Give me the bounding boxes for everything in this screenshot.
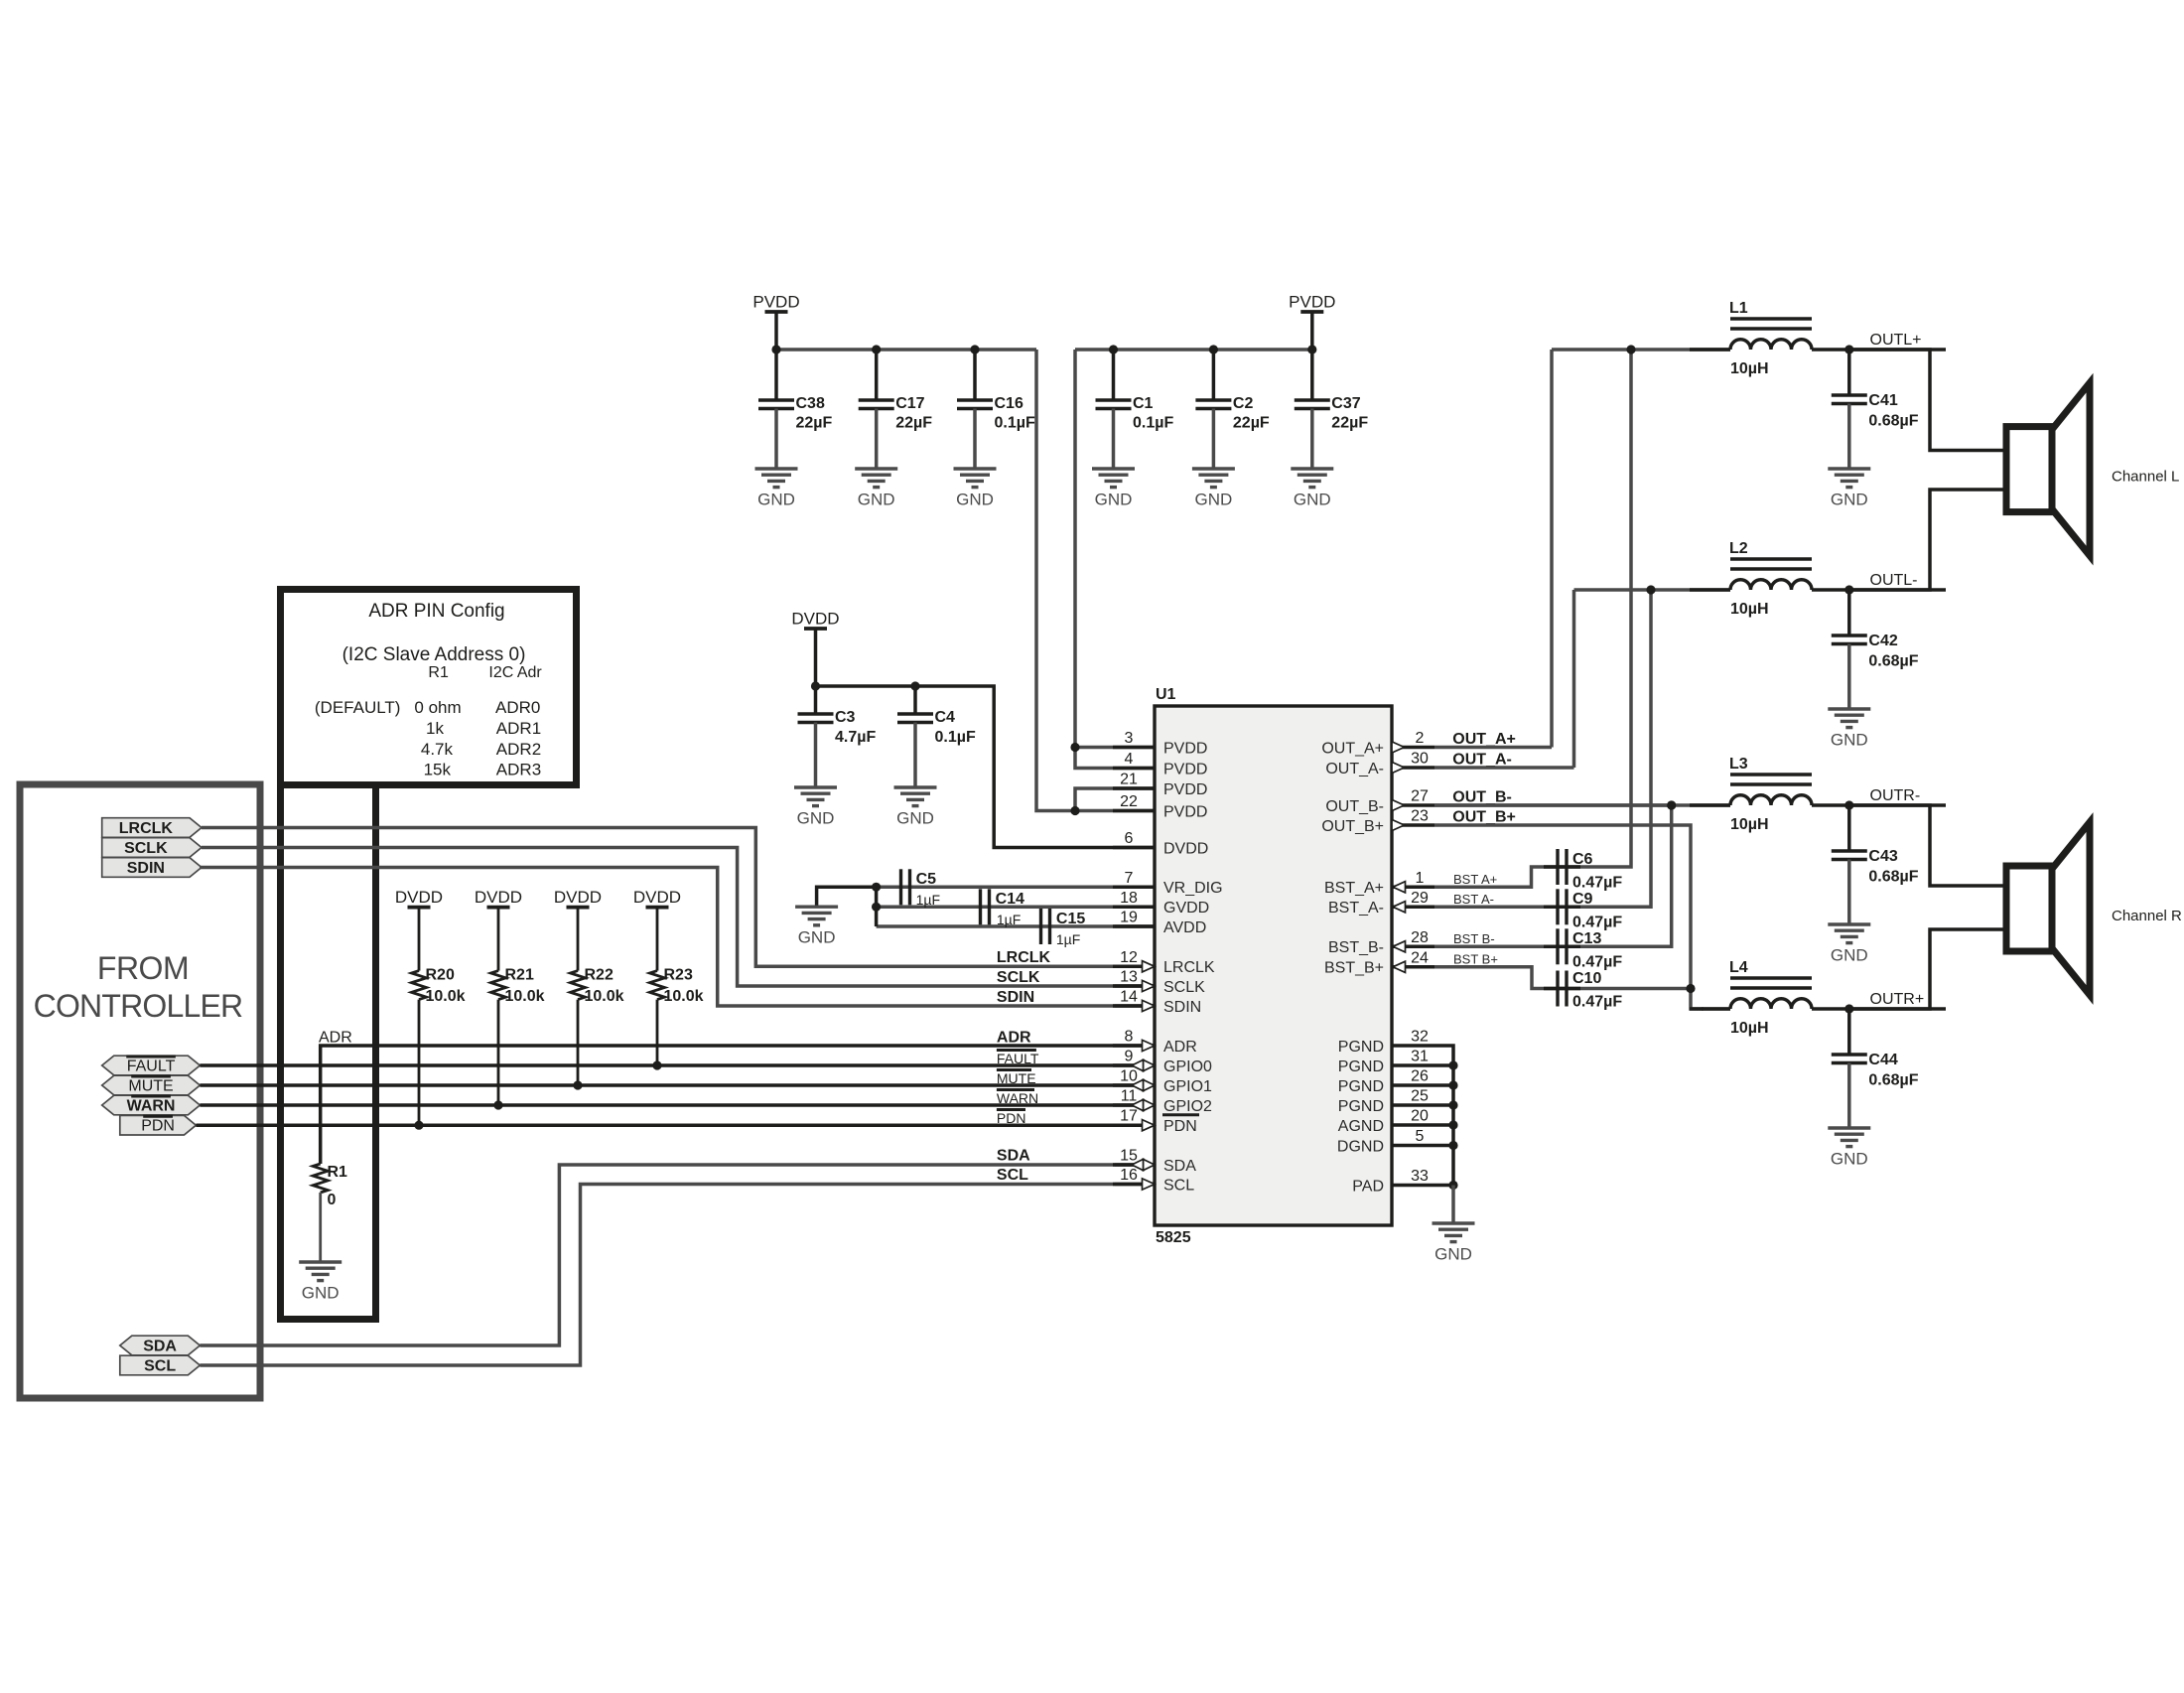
svg-text:0.47µF: 0.47µF (1572, 915, 1622, 931)
pin 32 PGND (1392, 1044, 1434, 1048)
svg-text:DVDD: DVDD (791, 610, 839, 629)
wire VR_DIG row (877, 886, 1115, 890)
svg-text:(I2C Slave Address 0): (I2C Slave Address 0) (342, 644, 526, 665)
pin 28 BST_B- (1392, 945, 1434, 949)
svg-text:OUT_B+: OUT_B+ (1321, 818, 1384, 835)
svg-text:PVDD: PVDD (1163, 740, 1207, 757)
ground below PAD (1433, 1221, 1475, 1224)
pin 27 OUT_B- (1392, 803, 1434, 807)
IC U1 body (1155, 706, 1392, 1225)
capacitor C5 (899, 869, 902, 905)
wire DVDD rail to pin 6 (816, 686, 1156, 848)
pin 10 GPIO1 (1113, 1083, 1155, 1087)
wire PVDD left to rail (774, 312, 778, 350)
pin 18 GVDD (1113, 906, 1155, 910)
svg-text:BST_B-: BST_B- (1328, 939, 1384, 956)
svg-text:C17: C17 (895, 395, 924, 412)
svg-text:2: 2 (1416, 730, 1425, 747)
node pin22 line (1070, 806, 1079, 815)
svg-text:C44: C44 (1868, 1052, 1897, 1068)
svg-text:SCL: SCL (997, 1167, 1028, 1184)
flag SDA (120, 1336, 201, 1355)
pin 20 AGND (1392, 1123, 1434, 1127)
node rail C38 (771, 345, 780, 353)
flag LRCLK (102, 818, 202, 838)
node rail C17 (872, 345, 881, 353)
svg-text:22µF: 22µF (1233, 415, 1270, 432)
ADR config box (281, 784, 376, 1320)
svg-text:PDN: PDN (1163, 1118, 1197, 1135)
node rail C2 (1209, 345, 1218, 353)
pin 11 GPIO2 (1113, 1103, 1155, 1107)
svg-text:PAD: PAD (1352, 1178, 1384, 1195)
wire OUTR- to speaker (1849, 805, 2006, 886)
svg-text:PDN: PDN (997, 1110, 1026, 1126)
svg-text:C16: C16 (995, 395, 1024, 412)
svg-text:GND: GND (896, 809, 934, 828)
svg-text:SDA: SDA (143, 1339, 177, 1355)
svg-text:C9: C9 (1572, 891, 1593, 908)
node OUTR+ (1844, 1004, 1853, 1013)
ground below C38 (755, 467, 798, 470)
wire to ground arm (817, 887, 877, 907)
wire FAULT net (200, 1063, 1155, 1067)
pin 33 PAD (1392, 1184, 1434, 1188)
node L3 bst join (1667, 800, 1676, 809)
svg-text:13: 13 (1120, 969, 1138, 986)
svg-text:U1: U1 (1156, 686, 1176, 703)
svg-text:R1: R1 (428, 664, 449, 681)
wire L2 row (1574, 588, 1731, 592)
svg-text:ADR: ADR (319, 1030, 352, 1047)
capacitor C10 0.47uF (1544, 987, 1580, 991)
wire PGND branch (1434, 1103, 1453, 1107)
resistor R22 10.0k (577, 908, 580, 971)
svg-text:FAULT: FAULT (127, 1058, 176, 1075)
svg-text:18: 18 (1120, 890, 1138, 907)
svg-text:DVDD: DVDD (554, 888, 602, 907)
svg-text:MUTE: MUTE (997, 1070, 1036, 1086)
ground for C5 network (795, 906, 838, 909)
wire PGND branch (1434, 1144, 1453, 1148)
wire PVDD rail right group (1075, 348, 1312, 352)
svg-text:19: 19 (1120, 910, 1138, 926)
pin 15 SDA (1113, 1163, 1155, 1167)
svg-text:L2: L2 (1729, 540, 1748, 557)
pin 17 PDN (1113, 1123, 1155, 1127)
pin 6 DVDD (1113, 846, 1155, 850)
svg-text:GPIO2: GPIO2 (1163, 1098, 1212, 1115)
capacitor C42 0.68uF (1847, 590, 1851, 635)
node C4 (910, 681, 919, 690)
svg-text:SDIN: SDIN (997, 989, 1034, 1006)
wire PGND branch (1434, 1123, 1453, 1127)
svg-text:C42: C42 (1868, 633, 1897, 649)
svg-text:C1: C1 (1133, 395, 1154, 412)
flag SCL (120, 1355, 201, 1375)
svg-text:PVDD: PVDD (1163, 761, 1207, 777)
wire pin 3 branch (1075, 746, 1155, 750)
svg-text:OUT_A+: OUT_A+ (1452, 731, 1516, 748)
pin 23 OUT_B+ (1392, 823, 1434, 827)
svg-text:29: 29 (1411, 890, 1429, 907)
svg-text:C13: C13 (1572, 930, 1601, 947)
svg-text:L3: L3 (1729, 756, 1748, 773)
svg-text:11: 11 (1121, 1088, 1138, 1105)
wire PVDD rail left group (776, 348, 1036, 352)
svg-text:L1: L1 (1729, 300, 1748, 317)
inductor L1 10uH (1730, 317, 1812, 321)
svg-text:5: 5 (1416, 1128, 1425, 1145)
svg-text:0.1µF: 0.1µF (1133, 415, 1173, 432)
svg-text:C3: C3 (835, 709, 856, 726)
ground below C3 (794, 785, 837, 788)
svg-text:0 ohm: 0 ohm (414, 698, 461, 717)
svg-text:8: 8 (1125, 1029, 1134, 1046)
svg-text:GND: GND (302, 1284, 340, 1303)
svg-text:PDN: PDN (141, 1118, 175, 1135)
node pin3 branch (1070, 743, 1079, 752)
svg-text:C4: C4 (935, 709, 956, 726)
svg-text:0.47µF: 0.47µF (1572, 875, 1622, 892)
svg-text:10.0k: 10.0k (426, 988, 466, 1005)
node PGND (1448, 1141, 1457, 1150)
wire ADR net (321, 1046, 1155, 1164)
pin 1 BST_A+ (1392, 886, 1434, 890)
pin 9 GPIO0 (1113, 1063, 1155, 1067)
wire PAD to ground (1451, 1186, 1455, 1224)
wire OUTL- to speaker (1849, 490, 2006, 590)
svg-text:12: 12 (1120, 949, 1138, 966)
node R22 junction (573, 1080, 582, 1089)
svg-text:I2C Adr: I2C Adr (488, 664, 542, 681)
wire BST_B- to C13 (1434, 805, 1672, 946)
svg-text:PGND: PGND (1338, 1039, 1384, 1056)
node C10 junction (1686, 984, 1695, 993)
pin 25 PGND (1392, 1103, 1434, 1107)
svg-text:21: 21 (1120, 772, 1138, 788)
ground below C37 (1291, 467, 1333, 470)
flag MUTE (102, 1075, 201, 1095)
svg-text:CONTROLLER: CONTROLLER (34, 988, 243, 1024)
svg-text:30: 30 (1411, 751, 1429, 768)
pin 24 BST_B+ (1392, 965, 1434, 969)
flag SCLK (102, 838, 202, 858)
node C13 junction (1667, 800, 1676, 809)
svg-text:SCL: SCL (144, 1358, 176, 1375)
svg-text:C14: C14 (996, 891, 1024, 908)
svg-text:33: 33 (1411, 1168, 1429, 1185)
wire pin 21 branch (1075, 788, 1155, 811)
svg-text:1µF: 1µF (1056, 931, 1080, 947)
ground below C2 (1192, 467, 1235, 470)
wire SDA net (200, 1165, 1115, 1345)
node R23 junction (652, 1060, 661, 1069)
ground below C41 (1828, 467, 1870, 470)
svg-text:GND: GND (956, 491, 994, 509)
svg-text:17: 17 (1120, 1108, 1138, 1125)
speaker Channel L (2006, 427, 2054, 512)
svg-text:ADR2: ADR2 (496, 740, 541, 759)
svg-text:0.68µF: 0.68µF (1868, 653, 1918, 670)
capacitor C6 0.47uF (1544, 865, 1580, 869)
svg-text:0.1µF: 0.1µF (935, 729, 976, 746)
pin 7 VR_DIG (1113, 886, 1155, 890)
svg-text:16: 16 (1120, 1167, 1138, 1184)
svg-text:0.47µF: 0.47µF (1572, 994, 1622, 1011)
svg-text:BST A-: BST A- (1453, 892, 1494, 907)
svg-text:15: 15 (1120, 1148, 1138, 1165)
svg-text:10µH: 10µH (1730, 601, 1769, 618)
svg-text:DVDD: DVDD (633, 888, 681, 907)
svg-text:22µF: 22µF (895, 415, 932, 432)
wire OUTL+ to speaker (1849, 350, 2006, 451)
wire PGND branch (1434, 1083, 1453, 1087)
pin 14 SDIN (1113, 1004, 1155, 1008)
svg-text:OUTL-: OUTL- (1870, 572, 1918, 589)
svg-text:PGND: PGND (1338, 1078, 1384, 1095)
pin 30 OUT_A- (1392, 766, 1434, 770)
svg-text:0.68µF: 0.68µF (1868, 1072, 1918, 1089)
svg-text:SDIN: SDIN (127, 860, 165, 877)
pin 4 PVDD (1113, 767, 1155, 771)
ground below C17 (855, 467, 897, 470)
svg-text:25: 25 (1411, 1088, 1429, 1105)
svg-text:31: 31 (1411, 1049, 1429, 1065)
ground below R1 (299, 1260, 341, 1263)
node PGND (1448, 1060, 1457, 1069)
ground below C42 (1828, 707, 1870, 710)
ground below C16 (954, 467, 997, 470)
pin 22 PVDD (1113, 809, 1155, 813)
svg-text:GND: GND (858, 491, 895, 509)
wire L4 row (1702, 1007, 1730, 1011)
svg-text:OUTR+: OUTR+ (1870, 991, 1925, 1008)
svg-text:PVDD: PVDD (1289, 293, 1335, 312)
inductor L2 10uH (1730, 557, 1812, 561)
pin 26 PGND (1392, 1083, 1434, 1087)
wire BST_A- to C9 (1434, 590, 1651, 907)
wire L3 row (1434, 803, 1730, 807)
svg-text:C10: C10 (1572, 970, 1601, 987)
inductor L3 10uH (1730, 773, 1812, 776)
ground below C44 (1828, 1126, 1870, 1129)
svg-text:C6: C6 (1572, 851, 1593, 868)
pin 16 SCL (1113, 1183, 1155, 1187)
svg-text:28: 28 (1411, 929, 1429, 946)
svg-text:SDIN: SDIN (1163, 999, 1201, 1016)
svg-text:PVDD: PVDD (1163, 803, 1207, 820)
svg-text:10.0k: 10.0k (585, 988, 624, 1005)
svg-text:10.0k: 10.0k (664, 988, 704, 1005)
svg-text:LRCLK: LRCLK (1163, 959, 1215, 976)
svg-text:BST B+: BST B+ (1453, 952, 1498, 967)
svg-text:0.47µF: 0.47µF (1572, 954, 1622, 971)
svg-text:GND: GND (1294, 491, 1331, 509)
svg-text:(DEFAULT): (DEFAULT) (315, 698, 401, 717)
wire OUT_B- feed (1434, 803, 1672, 807)
svg-text:FROM: FROM (97, 950, 189, 986)
svg-text:GND: GND (1095, 491, 1133, 509)
wire SCLK net (202, 848, 1115, 987)
node rail C16 (970, 345, 979, 353)
wire AVDD row (877, 924, 1115, 928)
inductor L4 10uH (1730, 976, 1812, 980)
svg-text:C2: C2 (1233, 395, 1254, 412)
pin 13 SCLK (1113, 984, 1155, 988)
pin 2 OUT_A+ (1392, 746, 1434, 750)
svg-text:OUT_B-: OUT_B- (1452, 789, 1512, 806)
svg-text:BST B-: BST B- (1453, 931, 1495, 946)
wire rail drop to pin 22 (1036, 350, 1155, 811)
svg-text:GND: GND (797, 809, 835, 828)
svg-text:SDA: SDA (1163, 1158, 1196, 1175)
svg-text:BST_A-: BST_A- (1328, 900, 1384, 917)
wire BST_B+ to C10 (1434, 967, 1691, 989)
wire MUTE net (200, 1083, 1155, 1087)
svg-text:6: 6 (1125, 830, 1134, 847)
wire SCL net (200, 1185, 1115, 1366)
node PGND (1448, 1100, 1457, 1109)
capacitor C2 (1212, 350, 1216, 400)
capacitor C41 0.68uF (1847, 350, 1851, 395)
capacitor C9 0.47uF (1544, 906, 1580, 910)
svg-text:4: 4 (1125, 751, 1134, 768)
capacitor C16 (973, 350, 977, 400)
svg-text:AVDD: AVDD (1163, 919, 1206, 936)
svg-text:BST A+: BST A+ (1453, 872, 1497, 887)
node rail C37 (1307, 345, 1316, 353)
wire PVDD right to rail (1310, 312, 1314, 350)
svg-text:GND: GND (1195, 491, 1233, 509)
flag PDN (120, 1115, 197, 1135)
wire PGND branch (1434, 1063, 1453, 1067)
svg-text:OUTR-: OUTR- (1870, 787, 1921, 804)
svg-text:SCLK: SCLK (997, 969, 1040, 986)
svg-text:10µH: 10µH (1730, 360, 1769, 377)
wire OUTR+ to speaker (1849, 929, 2006, 1009)
svg-text:ADR: ADR (997, 1029, 1031, 1046)
svg-text:PVDD: PVDD (1163, 781, 1207, 798)
svg-text:Channel R: Channel R (2112, 908, 2182, 924)
svg-text:C37: C37 (1331, 395, 1360, 412)
wire PDN net (196, 1123, 1155, 1127)
svg-text:22µF: 22µF (796, 415, 833, 432)
wire OUT_A- feed (1434, 766, 1574, 770)
svg-text:5825: 5825 (1156, 1229, 1191, 1246)
svg-text:15k: 15k (424, 761, 452, 779)
svg-text:ADR0: ADR0 (495, 698, 540, 717)
svg-text:0: 0 (328, 1192, 337, 1208)
wire OUT_B+ feed (1434, 825, 1704, 1009)
capacitor C15 (1039, 909, 1042, 944)
pin 5 DGND (1392, 1144, 1434, 1148)
pin 19 AVDD (1113, 924, 1155, 928)
resistor R23 10.0k (656, 908, 659, 971)
svg-text:VR_DIG: VR_DIG (1163, 880, 1223, 897)
pin 29 BST_A- (1392, 906, 1434, 910)
node OUTL- (1844, 585, 1853, 594)
svg-text:GND: GND (757, 491, 795, 509)
wire rail drop to pin 3 and 4 (1075, 350, 1155, 769)
svg-text:DVDD: DVDD (1163, 840, 1208, 857)
svg-text:GND: GND (1831, 1150, 1868, 1169)
svg-text:32: 32 (1411, 1029, 1429, 1046)
svg-text:GND: GND (798, 928, 836, 947)
svg-text:LRCLK: LRCLK (119, 820, 174, 837)
svg-text:22µF: 22µF (1331, 415, 1368, 432)
node L1 bst join (1626, 345, 1635, 353)
wire OUT_A+ feed (1434, 746, 1552, 750)
capacitor C43 0.68uF (1847, 805, 1851, 851)
svg-text:FAULT: FAULT (997, 1051, 1039, 1066)
resistor R21 10.0k (497, 908, 500, 971)
svg-text:DVDD: DVDD (475, 888, 522, 907)
node R21 junction (493, 1100, 502, 1109)
pin 8 ADR (1113, 1044, 1155, 1048)
svg-text:PGND: PGND (1338, 1058, 1384, 1075)
svg-text:3: 3 (1125, 730, 1134, 747)
svg-text:4.7k: 4.7k (421, 740, 454, 759)
flag WARN (102, 1095, 201, 1115)
wire BST_A+ to C6 (1434, 350, 1631, 887)
node R20 junction (414, 1121, 423, 1130)
svg-text:26: 26 (1411, 1068, 1429, 1085)
pin 3 PVDD (1113, 746, 1155, 750)
wire LRCLK net (202, 828, 1115, 967)
svg-text:OUT_A-: OUT_A- (1452, 752, 1512, 769)
capacitor C38 (774, 350, 778, 400)
capacitor C17 (875, 350, 879, 400)
svg-text:C41: C41 (1868, 392, 1897, 409)
svg-text:10: 10 (1120, 1068, 1138, 1085)
pin 31 PGND (1392, 1063, 1434, 1067)
svg-text:R21: R21 (505, 966, 534, 983)
svg-text:OUTL+: OUTL+ (1870, 332, 1922, 349)
wire SDIN net (200, 868, 1115, 1007)
svg-text:10µH: 10µH (1730, 816, 1769, 833)
svg-text:DGND: DGND (1337, 1138, 1384, 1155)
svg-text:R20: R20 (426, 966, 455, 983)
svg-text:GVDD: GVDD (1163, 900, 1209, 917)
svg-text:SCLK: SCLK (124, 840, 168, 857)
svg-text:Channel L: Channel L (2112, 469, 2179, 486)
svg-text:23: 23 (1411, 808, 1429, 825)
wire L1 row (1552, 348, 1730, 352)
svg-text:WARN: WARN (997, 1090, 1038, 1106)
ground below C43 (1828, 922, 1870, 925)
svg-text:C5: C5 (916, 871, 937, 888)
svg-text:MUTE: MUTE (128, 1078, 173, 1095)
controller box (20, 784, 260, 1398)
svg-text:GND: GND (1434, 1245, 1472, 1264)
svg-text:R22: R22 (585, 966, 614, 983)
svg-text:0.1µF: 0.1µF (995, 415, 1035, 432)
svg-text:GND: GND (1831, 731, 1868, 750)
svg-text:DVDD: DVDD (395, 888, 443, 907)
svg-text:OUT_B-: OUT_B- (1325, 798, 1384, 815)
svg-text:C43: C43 (1868, 848, 1897, 865)
node PAD (1448, 1181, 1457, 1190)
svg-text:4.7µF: 4.7µF (835, 729, 876, 746)
svg-text:L4: L4 (1729, 959, 1748, 976)
svg-text:OUT_B+: OUT_B+ (1452, 809, 1516, 826)
svg-text:7: 7 (1125, 870, 1134, 887)
wire GVDD row (877, 906, 1115, 910)
svg-text:9: 9 (1125, 1049, 1134, 1065)
capacitor C4 (913, 686, 917, 714)
svg-text:1µF: 1µF (916, 892, 940, 908)
